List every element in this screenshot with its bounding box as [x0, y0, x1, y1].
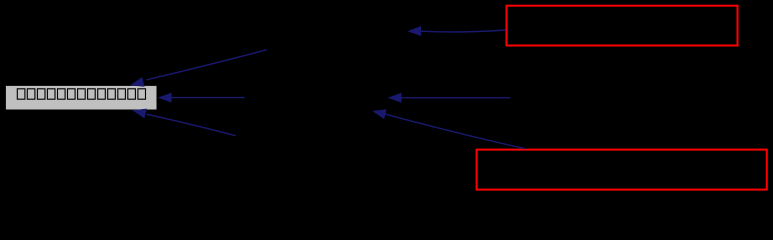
edge E2: hidden node to grey box (middle horizontal) [158, 93, 245, 103]
edge E3: hidden node to grey box (lower) [132, 109, 235, 136]
node: truncated caller box bottom-right (red border) [477, 150, 767, 190]
edge E6: top red box to hidden upper node [407, 26, 506, 36]
node: current function (grey box) [6, 86, 157, 110]
edge E1: hidden node to grey box (upper) [130, 50, 267, 87]
edge E4: hidden right node to hidden middle node (horizontal) [388, 93, 511, 103]
edge E5: bottom red box to hidden middle node [372, 109, 525, 148]
node label: 13 missing-glyph (tofu) boxes [17, 89, 145, 99]
node: truncated caller box top-right (red border) [507, 6, 738, 46]
